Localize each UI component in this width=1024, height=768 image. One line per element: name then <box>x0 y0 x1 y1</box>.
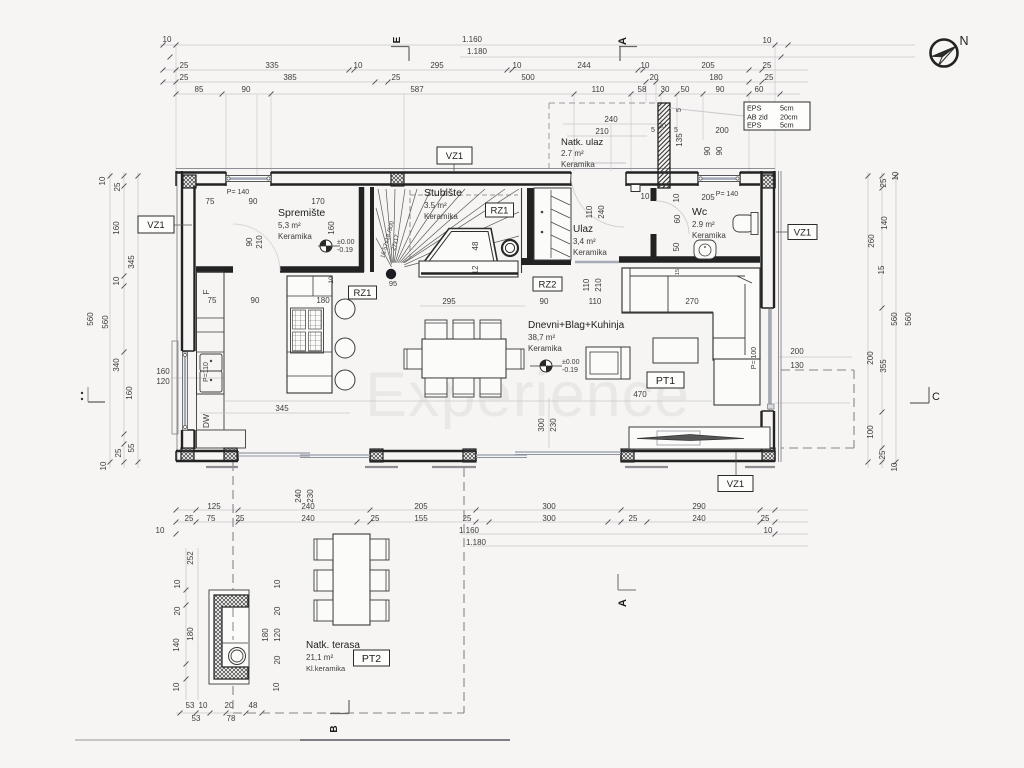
svg-text:95: 95 <box>389 279 397 288</box>
svg-text:340: 340 <box>112 358 121 372</box>
svg-text:335: 335 <box>265 61 279 70</box>
EPS legend box <box>744 102 810 130</box>
svg-text:20: 20 <box>273 606 282 615</box>
svg-text:210: 210 <box>255 235 264 249</box>
svg-text:120: 120 <box>156 377 170 386</box>
svg-text:60: 60 <box>673 214 682 223</box>
svg-text:21,1 m²: 21,1 m² <box>306 653 333 662</box>
svg-text:25: 25 <box>113 182 122 191</box>
staircase dashed walk line <box>409 190 411 262</box>
svg-text:VZ1: VZ1 <box>794 227 811 238</box>
svg-text:Keramika: Keramika <box>528 344 562 353</box>
VZ1 label bottom <box>735 452 737 476</box>
svg-text:PT2: PT2 <box>362 653 381 665</box>
svg-text:F: F <box>202 289 211 294</box>
svg-text:25: 25 <box>629 514 638 523</box>
page border bottom <box>75 739 300 741</box>
svg-text:25: 25 <box>879 178 888 187</box>
bar stools <box>335 299 355 319</box>
svg-text:EPS: EPS <box>747 104 762 113</box>
svg-text:10: 10 <box>199 701 208 710</box>
svg-text:53: 53 <box>192 714 201 723</box>
svg-text:30: 30 <box>661 85 670 94</box>
svg-text:50: 50 <box>672 242 681 251</box>
svg-text:90: 90 <box>242 85 251 94</box>
svg-text:205: 205 <box>414 502 428 511</box>
svg-text:160: 160 <box>112 221 121 235</box>
svg-text:VZ1: VZ1 <box>727 479 744 490</box>
svg-text:-0.19: -0.19 <box>337 247 353 254</box>
svg-text:5cm: 5cm <box>780 104 794 113</box>
svg-text:Keramika: Keramika <box>424 212 458 221</box>
svg-text:20: 20 <box>173 606 182 615</box>
svg-text:90: 90 <box>716 85 725 94</box>
svg-text:1.180: 1.180 <box>467 47 488 56</box>
svg-text:160: 160 <box>327 221 336 235</box>
svg-text:Keramika: Keramika <box>561 160 595 169</box>
bbq outdoor kitchen <box>209 590 249 684</box>
svg-text:5: 5 <box>674 127 678 134</box>
svg-text:75: 75 <box>206 197 215 206</box>
svg-text:90: 90 <box>715 146 724 155</box>
svg-text:25: 25 <box>761 514 770 523</box>
svg-text:15: 15 <box>877 265 886 274</box>
svg-text:300: 300 <box>542 514 556 523</box>
svg-text:90: 90 <box>251 296 260 305</box>
svg-text:25: 25 <box>180 61 189 70</box>
door swing arcs <box>571 174 624 227</box>
svg-text:75: 75 <box>208 296 217 305</box>
kitchen island <box>287 276 332 393</box>
svg-text:210: 210 <box>594 278 603 292</box>
svg-text:560: 560 <box>86 312 95 326</box>
svg-text:25: 25 <box>180 73 189 82</box>
svg-text:E: E <box>392 36 403 43</box>
svg-text:2.7 m²: 2.7 m² <box>561 149 584 158</box>
svg-text:10: 10 <box>156 526 165 535</box>
svg-text:5: 5 <box>651 127 655 134</box>
svg-text:200: 200 <box>715 126 729 135</box>
svg-text:10: 10 <box>98 176 107 185</box>
svg-text:5cm: 5cm <box>780 121 794 130</box>
svg-text:A: A <box>617 599 629 607</box>
svg-text:12: 12 <box>471 265 480 274</box>
svg-text:Natk. terasa: Natk. terasa <box>306 640 360 651</box>
svg-text:295: 295 <box>442 297 456 306</box>
svg-text:75: 75 <box>207 514 216 523</box>
elevation marker spremiste <box>320 240 332 252</box>
PT2 label <box>354 650 390 666</box>
svg-text:180: 180 <box>316 296 330 305</box>
svg-text:10: 10 <box>328 276 335 284</box>
svg-text:20: 20 <box>650 73 659 82</box>
svg-text:1.180: 1.180 <box>466 538 487 547</box>
svg-text:560: 560 <box>890 312 899 326</box>
svg-text:100: 100 <box>866 425 875 439</box>
svg-text:58: 58 <box>638 85 647 94</box>
wc toilet <box>733 215 754 232</box>
north compass <box>931 40 958 67</box>
exterior walls <box>176 171 226 173</box>
svg-text:244: 244 <box>577 61 591 70</box>
svg-text:110: 110 <box>585 205 594 218</box>
svg-text:25: 25 <box>763 61 772 70</box>
svg-text:78: 78 <box>227 714 236 723</box>
wall pads (columns) <box>183 175 196 188</box>
VZ1 label top <box>453 164 455 172</box>
svg-text:P= 140: P= 140 <box>716 191 738 198</box>
svg-text:25: 25 <box>371 514 380 523</box>
armchair <box>586 347 630 379</box>
svg-text:RZ1: RZ1 <box>491 205 509 216</box>
stair column circle <box>502 240 518 256</box>
svg-text:470: 470 <box>633 390 647 399</box>
svg-text:160: 160 <box>156 367 170 376</box>
svg-text:10: 10 <box>890 462 899 471</box>
svg-text:240: 240 <box>301 514 315 523</box>
svg-text:10: 10 <box>513 61 522 70</box>
svg-text:25: 25 <box>765 73 774 82</box>
svg-text:48: 48 <box>471 241 480 250</box>
svg-text:130: 130 <box>790 361 804 370</box>
section marker left <box>87 387 89 402</box>
terrace table <box>333 534 370 625</box>
dimension lines left <box>109 172 111 468</box>
svg-text:25: 25 <box>236 514 245 523</box>
RZ1 label stair <box>486 203 514 217</box>
svg-text:10: 10 <box>891 171 900 180</box>
wardrobe closet <box>534 188 571 260</box>
svg-text:Keramika: Keramika <box>692 231 726 240</box>
svg-text:180: 180 <box>709 73 723 82</box>
svg-text:90: 90 <box>245 237 254 246</box>
svg-text:345: 345 <box>127 255 136 269</box>
svg-text:5,3 m²: 5,3 m² <box>278 221 301 230</box>
washer under counter <box>196 394 198 430</box>
svg-text:15: 15 <box>675 269 681 275</box>
svg-text:252: 252 <box>186 551 195 565</box>
svg-text:C: C <box>932 391 940 403</box>
porch dashed outline (Natk. ulaz) <box>549 102 659 104</box>
dimension lines right <box>867 172 869 468</box>
svg-text:RZ2: RZ2 <box>539 279 557 290</box>
dimension lines top <box>160 44 915 46</box>
svg-text:1.160: 1.160 <box>459 526 480 535</box>
svg-text:25: 25 <box>392 73 401 82</box>
coffee table <box>653 338 698 363</box>
svg-text:Keramika: Keramika <box>573 248 607 257</box>
svg-text:155: 155 <box>414 514 428 523</box>
window W5 left (door) <box>183 352 188 430</box>
svg-text:DW: DW <box>201 414 211 428</box>
svg-text:85: 85 <box>195 85 204 94</box>
svg-text:110: 110 <box>592 85 605 94</box>
svg-text:VZ1: VZ1 <box>147 220 164 231</box>
window W4 bottom sliding <box>476 454 527 456</box>
staircase landing rail <box>421 229 498 267</box>
svg-text:Wc: Wc <box>692 206 707 218</box>
svg-text:10: 10 <box>641 192 650 201</box>
svg-text:RZ1: RZ1 <box>354 288 372 299</box>
svg-text:210: 210 <box>595 127 609 136</box>
svg-text:10: 10 <box>273 579 282 588</box>
svg-text:P= 100: P= 100 <box>751 347 758 369</box>
svg-text:125: 125 <box>207 502 221 511</box>
svg-text:10: 10 <box>112 276 121 285</box>
svg-text:205: 205 <box>701 61 715 70</box>
svg-text:20: 20 <box>273 655 282 664</box>
svg-text:±0.00: ±0.00 <box>337 239 355 246</box>
svg-text:560: 560 <box>904 312 913 326</box>
svg-text:10: 10 <box>173 579 182 588</box>
dimension lines bottom <box>176 509 808 511</box>
window W1 top <box>226 176 271 182</box>
svg-text:2.9 m²: 2.9 m² <box>692 220 715 229</box>
svg-text:N: N <box>959 34 968 48</box>
svg-text:300: 300 <box>542 502 556 511</box>
svg-text:270: 270 <box>685 297 699 306</box>
PT1 label <box>647 372 684 388</box>
dining chairs <box>425 320 447 339</box>
svg-text:3,4 m²: 3,4 m² <box>573 237 596 246</box>
svg-text:240: 240 <box>604 115 618 124</box>
kitchen counter left <box>197 272 225 394</box>
svg-text:240: 240 <box>301 502 315 511</box>
svg-text:240: 240 <box>597 205 606 219</box>
staircase bottom strip <box>419 261 518 277</box>
svg-text:240: 240 <box>294 489 303 503</box>
svg-text:25: 25 <box>114 448 123 457</box>
dining table <box>422 339 506 378</box>
svg-text:230: 230 <box>549 418 558 432</box>
svg-text:10: 10 <box>672 193 681 202</box>
svg-text:120: 120 <box>273 628 282 642</box>
svg-text:260: 260 <box>867 234 876 248</box>
svg-text:140: 140 <box>880 216 889 230</box>
svg-text:10: 10 <box>354 61 363 70</box>
svg-text:3.5 m²: 3.5 m² <box>424 201 447 210</box>
terrace chairs <box>314 539 333 560</box>
svg-text:587: 587 <box>410 85 424 94</box>
svg-text:Dnevni+Blag+Kuhinja: Dnevni+Blag+Kuhinja <box>528 320 625 331</box>
svg-text:48: 48 <box>249 701 258 710</box>
svg-text:60: 60 <box>755 85 764 94</box>
svg-text:PT1: PT1 <box>656 375 675 387</box>
svg-text:140: 140 <box>172 638 181 652</box>
svg-text:385: 385 <box>283 73 297 82</box>
svg-text:10: 10 <box>272 682 281 691</box>
svg-text:Natk. ulaz: Natk. ulaz <box>561 137 603 148</box>
svg-text:200: 200 <box>866 351 875 365</box>
svg-text:50: 50 <box>681 85 690 94</box>
svg-text:10: 10 <box>172 682 181 691</box>
VZ1 label right <box>776 231 788 233</box>
svg-text:230: 230 <box>306 489 315 503</box>
svg-text:P= 140: P= 140 <box>227 189 249 196</box>
ottoman <box>714 359 760 405</box>
svg-text:38,7 m²: 38,7 m² <box>528 333 555 342</box>
interior walls <box>359 187 365 272</box>
svg-text:10: 10 <box>163 35 172 44</box>
sofa L-shape <box>622 268 760 360</box>
insulation outline <box>176 168 775 170</box>
svg-text:Ulaz: Ulaz <box>573 224 593 235</box>
svg-text:295: 295 <box>430 61 444 70</box>
svg-text:Keramika: Keramika <box>278 232 312 241</box>
svg-text:10: 10 <box>641 61 650 70</box>
svg-text:500: 500 <box>521 73 535 82</box>
terrace dashed outline <box>232 462 234 713</box>
svg-text:355: 355 <box>879 359 888 373</box>
svg-text:90: 90 <box>703 146 712 155</box>
stair dot 95 <box>386 269 396 279</box>
VZ1 label left <box>174 224 192 226</box>
svg-text:290: 290 <box>692 502 706 511</box>
svg-text:Stubište: Stubište <box>424 187 462 199</box>
svg-text:B: B <box>329 725 340 732</box>
svg-text:53: 53 <box>186 701 195 710</box>
svg-text:EPS: EPS <box>747 121 762 130</box>
chimney <box>658 103 670 188</box>
svg-text:10: 10 <box>764 526 773 535</box>
svg-text:20: 20 <box>658 123 666 130</box>
TV sideboard <box>629 427 770 449</box>
svg-text:180: 180 <box>186 627 195 641</box>
svg-text:90: 90 <box>249 197 258 206</box>
svg-text:1.160: 1.160 <box>462 35 483 44</box>
svg-text:10: 10 <box>99 461 108 470</box>
svg-text:170: 170 <box>311 197 325 206</box>
svg-text:P=110: P=110 <box>203 362 210 382</box>
svg-text:110: 110 <box>589 297 602 306</box>
RZ1 label kitchen <box>349 286 377 299</box>
svg-text:Spremište: Spremište <box>278 207 325 219</box>
svg-text:A: A <box>617 37 629 45</box>
wc washbasin <box>694 240 716 259</box>
svg-text:135: 135 <box>675 133 684 147</box>
elevation marker living <box>540 360 552 372</box>
svg-text:VZ1: VZ1 <box>446 151 463 162</box>
staircase fan treads <box>378 189 392 263</box>
svg-text:25: 25 <box>185 514 194 523</box>
svg-text:345: 345 <box>275 404 289 413</box>
hob <box>291 308 324 353</box>
window W6 right sliding door <box>769 309 772 410</box>
svg-text:-0.19: -0.19 <box>562 367 578 374</box>
svg-text:110: 110 <box>582 278 591 291</box>
svg-text:55: 55 <box>127 443 136 452</box>
RZ2 label <box>533 277 562 291</box>
svg-text:160: 160 <box>125 386 134 400</box>
svg-text:180: 180 <box>261 628 270 642</box>
svg-text:±0.00: ±0.00 <box>562 359 580 366</box>
svg-text:10: 10 <box>763 36 772 45</box>
svg-text:5: 5 <box>676 108 683 112</box>
svg-text:Kl.keramika: Kl.keramika <box>306 664 346 673</box>
window W3 bottom sliding <box>238 452 310 454</box>
dashed outline right <box>781 369 854 371</box>
svg-text:200: 200 <box>790 347 804 356</box>
svg-text:205: 205 <box>701 193 715 202</box>
svg-text:300: 300 <box>537 418 546 432</box>
window W2 top <box>698 176 740 182</box>
svg-text:240: 240 <box>692 514 706 523</box>
kitchen sink <box>200 354 222 371</box>
svg-text:90: 90 <box>540 297 549 306</box>
svg-text:560: 560 <box>101 315 110 329</box>
svg-text:25: 25 <box>878 450 887 459</box>
